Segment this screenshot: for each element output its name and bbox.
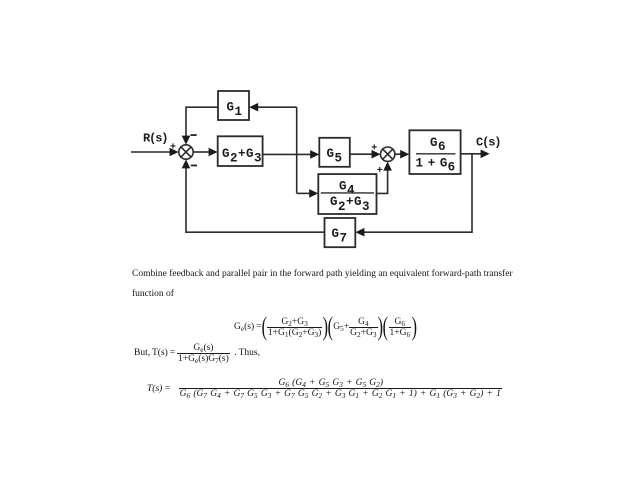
minus sign at S1 top input — [191, 134, 197, 136]
svg-text:+: + — [377, 166, 383, 177]
wire: G5 output to summer S2 — [350, 153, 372, 155]
block G7 — [325, 218, 356, 247]
minus sign at S1 bottom input — [191, 165, 197, 167]
wire: takeoff vertical line after G2+G3 — [296, 107, 298, 193]
equation T(s) final — [147, 375, 502, 402]
svg-text:+: + — [371, 144, 377, 155]
wire: G4/(G2+G3) output up into summer S2 — [377, 170, 388, 193]
wire: takeoff to G1 input — [257, 106, 297, 108]
wire: G2+G3 output to block G5 (through takeoff node) — [263, 153, 311, 155]
paragraph line 2 — [132, 289, 174, 299]
wire: summer S1 to block G2+G3 — [193, 151, 209, 153]
block G2+G3 — [218, 136, 263, 166]
svg-text:G6: G6 — [430, 136, 446, 154]
wire: summer S2 to block G6/(1+G6) — [395, 153, 401, 155]
summing junction S2 — [381, 147, 395, 161]
svg-text:G5: G5 — [327, 147, 343, 166]
svg-text:1 + G6: 1 + G6 — [416, 157, 456, 175]
svg-text:+: + — [170, 142, 176, 153]
svg-text:G2+G3: G2+G3 — [222, 147, 262, 166]
equation But T(s) — [134, 339, 260, 367]
svg-text:C(s): C(s) — [476, 136, 500, 150]
wire: G1 output down into summer S1 (minus) — [186, 107, 218, 136]
svg-text:G1: G1 — [227, 101, 243, 120]
svg-text:G2+G3: G2+G3 — [330, 195, 370, 214]
equation Ge(s) — [234, 311, 417, 343]
svg-text:G7: G7 — [332, 227, 348, 246]
wire: G7 output left and up into summer S1 (minus) — [186, 168, 325, 232]
wire: output takeoff down and left to G7 input — [364, 154, 472, 232]
svg-text:R(s): R(s) — [143, 132, 167, 146]
summing junction S1 — [179, 145, 193, 159]
wire: takeoff down to G4/(G2+G3) input — [297, 192, 310, 194]
wire: R(s) input to summer S1 — [131, 151, 170, 153]
block G4/(G2+G3) — [318, 174, 376, 214]
paragraph line 1 — [132, 269, 513, 279]
wire: G6/(1+G6) output to C(s) — [461, 153, 481, 155]
block G6/(1+G6) — [409, 130, 460, 174]
block G5 — [319, 138, 350, 167]
block G1 — [218, 91, 249, 120]
